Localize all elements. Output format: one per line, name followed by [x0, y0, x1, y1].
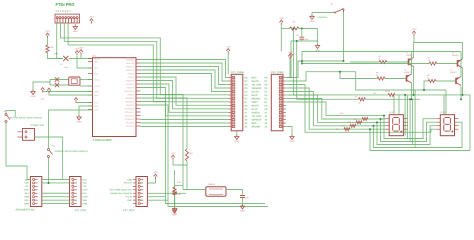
- ground S1: [310, 14, 314, 19]
- wire X3-X4 pin1: [42, 179, 70, 181]
- svg-text:VCC: VCC: [94, 67, 99, 70]
- svg-text:GND: GND: [234, 140, 239, 143]
- wire row2 b: [366, 98, 421, 100]
- wire sense drop 1: [293, 29, 295, 95]
- resistor R8 1k: [379, 60, 387, 63]
- svg-text:BLU: BLU: [83, 192, 88, 195]
- svg-text:VCC: VCC: [79, 47, 84, 50]
- svg-text:PC1/ADC1: PC1/ADC1: [125, 111, 134, 114]
- ground resonator: [31, 90, 35, 95]
- svg-text:R4: R4: [355, 96, 357, 99]
- wire loop0: [370, 129, 470, 150]
- resistor R3: [388, 93, 395, 96]
- wire seg net f5: [286, 102, 385, 116]
- wire bus C2: [141, 84, 229, 112]
- svg-text:BLUE: BLUE: [252, 94, 258, 97]
- junction: [462, 94, 464, 96]
- wire bottom bus 1: [166, 120, 266, 204]
- svg-text:C8: C8: [296, 34, 298, 37]
- wire R16 gnd: [174, 195, 176, 208]
- wire gnd stub JP1: [236, 131, 238, 135]
- resistor R4: [359, 98, 366, 101]
- wire base feed T3/T4: [286, 72, 355, 81]
- wire vcc to R2: [173, 160, 187, 165]
- wire drop d: [412, 99, 414, 144]
- junction: [380, 118, 382, 120]
- wire T3 emitter stub: [411, 52, 413, 75]
- svg-text:AREF: AREF: [94, 90, 100, 93]
- svg-text:XTAL1: XTAL1: [94, 78, 100, 81]
- wire f0 into display2: [431, 129, 436, 132]
- wire IC VCC pin: [76, 102, 93, 104]
- svg-text:10k: 10k: [190, 152, 193, 155]
- svg-text:XTAL2: XTAL2: [94, 85, 100, 88]
- svg-text:BLK: BLK: [83, 178, 88, 181]
- wire bus A0: [141, 60, 229, 78]
- VCC supply AVCC: [47, 88, 51, 93]
- wire S3 top to IC: [49, 110, 93, 149]
- svg-text:GRN: GRN: [24, 196, 29, 199]
- svg-text:BROWN: BROWN: [252, 97, 261, 100]
- VCC supply RC: [280, 20, 284, 25]
- svg-text:A2: A2: [358, 102, 360, 105]
- wire T3 collector: [411, 83, 413, 99]
- connector X6: [23, 129, 35, 141]
- VCC supply near reset: [79, 50, 83, 55]
- wire loop3: [381, 119, 437, 142]
- wire bus C0: [141, 77, 229, 105]
- svg-text:VCC: VCC: [90, 16, 95, 19]
- junction: [411, 98, 413, 100]
- wire cap C8 bottom: [301, 40, 303, 41]
- svg-text:100n: 100n: [64, 66, 68, 69]
- svg-text:YELLOW: YELLOW: [252, 115, 262, 118]
- svg-text:GND: GND: [172, 214, 177, 217]
- wire T1 emitter: [413, 43, 415, 58]
- wire S3 to X4 row: [48, 158, 50, 183]
- VCC supply X5: [154, 174, 158, 179]
- junction rail drop: [301, 60, 303, 62]
- svg-text:GREY: GREY: [252, 101, 259, 104]
- wire S1 left: [312, 12, 334, 14]
- VCC supply above JP1: [226, 49, 230, 54]
- wire R8 to T1 base: [387, 61, 409, 63]
- wire to VCC sym: [290, 41, 292, 53]
- ground below R16: [172, 208, 176, 213]
- capacitor C4: [55, 83, 59, 87]
- svg-text:PB0/ICP: PB0/ICP: [127, 86, 135, 89]
- svg-text:RED: RED: [252, 76, 257, 79]
- IC1 left pin stubs: [88, 59, 93, 110]
- wire drop e: [414, 90, 416, 148]
- wire T4 base drop: [424, 81, 428, 90]
- resistor R10 330: [362, 117, 368, 120]
- svg-text:RESET: RESET: [94, 57, 101, 60]
- net name labels between JP1 and JP2: [245, 76, 269, 128]
- wire bus D0: [141, 119, 229, 121]
- wire drop x470: [469, 95, 471, 151]
- svg-text:PB2/SS: PB2/SS: [127, 93, 134, 96]
- wire bottom bus 2: [168, 123, 268, 207]
- wire vcc stub: [80, 55, 82, 59]
- svg-text:Spindle New Signal IN: Spindle New Signal IN: [110, 192, 132, 195]
- resistor R10 1k: [377, 77, 385, 80]
- capacitor C3: [55, 77, 59, 81]
- svg-text:RED: RED: [83, 199, 88, 202]
- wire crystal right: [226, 190, 243, 195]
- svg-text:AN OUT: AN OUT: [124, 182, 133, 185]
- connector X5 EXT_MOV: [136, 177, 147, 207]
- junction sense 1: [293, 28, 295, 30]
- svg-text:BRN: BRN: [24, 202, 29, 205]
- svg-text:PD4/T0: PD4/T0: [128, 72, 134, 75]
- wire resonator left a: [50, 79, 69, 81]
- svg-text:330: 330: [348, 121, 351, 124]
- wire X3-X4 pin2: [42, 182, 70, 184]
- svg-text:PB6: PB6: [94, 60, 98, 63]
- wire display1 common b: [398, 95, 400, 115]
- wire drop c: [409, 99, 411, 141]
- junction sense 2: [296, 40, 298, 42]
- wire vcc JP2: [286, 59, 290, 78]
- wire FTDI TXD net: [61, 23, 229, 95]
- svg-text:BLUE: BLUE: [252, 108, 258, 111]
- svg-text:WHITE: WHITE: [252, 80, 260, 83]
- capacitor C1 22p: [172, 192, 177, 194]
- wire X5 pin7: [147, 199, 168, 201]
- svg-text:PD1/TXD: PD1/TXD: [126, 62, 135, 65]
- svg-text:VCC: VCC: [412, 28, 417, 31]
- ground below JP1: [235, 135, 239, 140]
- svg-text:16MHz: 16MHz: [208, 183, 215, 186]
- svg-text:BRN: BRN: [83, 202, 88, 205]
- VCC supply JP2: [289, 53, 293, 58]
- junction: [383, 115, 385, 117]
- svg-text:EXT_MOV: EXT_MOV: [123, 209, 135, 212]
- wire sense drop 2: [296, 41, 298, 99]
- wire display2 common a: [443, 95, 445, 115]
- svg-text:VCC: VCC: [171, 152, 176, 155]
- junction: [404, 94, 406, 96]
- wire X3-X4 pin7: [42, 199, 70, 201]
- svg-text:PB4/MISO: PB4/MISO: [125, 100, 134, 103]
- resistor R11 1k: [428, 79, 436, 82]
- wire cap2 gnd: [242, 198, 244, 204]
- VCC supply near FTDI: [90, 19, 94, 24]
- ground below C2: [240, 204, 244, 209]
- junction: [460, 98, 462, 100]
- wire RC a: [281, 28, 289, 30]
- wire RESET net: [48, 53, 64, 59]
- wire vcc to JP2: [286, 58, 291, 78]
- svg-text:330: 330: [354, 118, 357, 121]
- wire T2 base a: [302, 63, 429, 65]
- svg-text:GND: GND: [310, 20, 315, 23]
- wire row2 a: [297, 98, 359, 100]
- svg-text:2N2907: 2N2907: [404, 71, 411, 74]
- svg-text:BROWN: BROWN: [252, 125, 261, 128]
- svg-text:ARDUMOTO-NG: ARDUMOTO-NG: [16, 209, 35, 212]
- resistor R2 10k: [185, 149, 188, 161]
- wire rail2 left drop: [301, 52, 303, 64]
- wire R2 bottom: [186, 161, 188, 190]
- svg-text:GND: GND: [290, 140, 295, 143]
- wire loop2: [377, 122, 436, 144]
- junction T3 feed: [339, 71, 341, 73]
- op-amp U1 : microcontroller IC1 ATMEGA328P body: [93, 58, 137, 137]
- svg-text:RED: RED: [24, 199, 29, 202]
- VCC supply IC pin: [74, 98, 78, 103]
- wire T1 collector: [413, 67, 415, 95]
- svg-text:PC4/SDA: PC4/SDA: [126, 121, 135, 124]
- svg-text:3 3 T R 2 V 1: 3 3 T R 2 V 1: [56, 10, 72, 13]
- wire R11 to T4 base: [436, 80, 456, 82]
- svg-text:PC2/ADC2: PC2/ADC2: [125, 114, 134, 117]
- svg-text:ORANGE: ORANGE: [252, 87, 262, 90]
- svg-text:DTR: DTR: [54, 53, 59, 56]
- VCC supply near R2: [171, 155, 175, 160]
- wire S1 gnd stub: [311, 13, 313, 15]
- svg-text:VCC: VCC: [75, 48, 80, 51]
- wire bus A3: [141, 70, 229, 88]
- wire rail2: [302, 51, 461, 53]
- junction: [373, 125, 375, 127]
- wire IC GND pin: [79, 106, 93, 115]
- wire display1 common a: [393, 95, 395, 115]
- svg-text:PC0/ADC0: PC0/ADC0: [125, 107, 134, 110]
- svg-text:PD7/AIN1: PD7/AIN1: [126, 83, 134, 86]
- svg-text:R3 1k: R3 1k: [385, 90, 390, 93]
- junction T4 base: [423, 89, 425, 91]
- svg-text:VCC: VCC: [226, 46, 231, 49]
- VCC supply RESET pullup: [46, 33, 50, 38]
- wire T2 emitter: [462, 43, 464, 60]
- svg-text:Wire PWM Signal OUT: Wire PWM Signal OUT: [110, 189, 133, 192]
- wire X5 pin5: [147, 192, 186, 194]
- junction: [409, 98, 411, 100]
- wire seg net f3: [286, 95, 385, 122]
- wire bus A2: [141, 67, 229, 85]
- connector X4 EXT_CON: [70, 177, 81, 207]
- junction S3 row: [48, 182, 50, 184]
- transistor T3 PNP 2N2907: [407, 74, 412, 83]
- svg-text:EXT_CON: EXT_CON: [75, 209, 87, 212]
- wire resonator left b: [50, 84, 69, 86]
- connector X1 FTDI header: [55, 14, 79, 23]
- svg-text:FTDI PRG: FTDI PRG: [56, 2, 75, 7]
- switch S1 loadcell: [334, 8, 345, 13]
- VCC supply displays: [412, 31, 416, 36]
- svg-text:VCC: VCC: [154, 171, 159, 174]
- ground below C1: [173, 207, 177, 212]
- svg-text:ATMEGA328P: ATMEGA328P: [93, 138, 112, 142]
- wire vcc to R1: [47, 38, 49, 45]
- IC1 pin name texts: [94, 57, 135, 128]
- wire bus C1: [141, 81, 229, 109]
- svg-text:IC1: IC1: [93, 55, 97, 58]
- wire XTAL2 to R2: [141, 98, 188, 149]
- wire X6 to X4 row: [35, 137, 63, 180]
- svg-text:330: 330: [336, 128, 339, 131]
- wire S2 to X3: [6, 123, 30, 180]
- svg-text:PC6: PC6: [94, 72, 98, 75]
- svg-text:ORG: ORG: [24, 189, 29, 192]
- svg-text:PD6/AIN0: PD6/AIN0: [126, 79, 134, 82]
- display LED1 7-segment: [389, 115, 403, 136]
- wire R9 to T2 base: [437, 63, 458, 65]
- wire vcc X5: [147, 179, 155, 183]
- resistor R12 330: [350, 124, 356, 127]
- wire S2 top hook: [6, 111, 15, 118]
- ground below JP2: [290, 135, 294, 140]
- wire X3-X4 pin5: [42, 192, 70, 194]
- switch S3 spindle reed: [48, 149, 53, 158]
- resistor R11 330: [356, 121, 362, 124]
- connector JP1 (EXT_CON8): [231, 74, 243, 131]
- wire S1 to net: [343, 12, 345, 61]
- wire X3-X4 pin8: [42, 203, 70, 205]
- svg-text:GND: GND: [31, 95, 36, 98]
- svg-text:2N2907: 2N2907: [452, 54, 459, 57]
- svg-text:GND: GND: [240, 210, 245, 213]
- wire caps to gnd: [33, 82, 50, 90]
- svg-text:LED1: LED1: [389, 111, 395, 114]
- crystal Q2 resonator: [69, 77, 80, 85]
- junction switch net: [343, 60, 345, 62]
- wire XTAL1 to crystal: [141, 95, 184, 186]
- wire bus A1: [141, 63, 229, 81]
- wire T1 base a: [350, 61, 379, 63]
- svg-text:2N2907: 2N2907: [450, 71, 457, 74]
- wire X3-X4 pin6: [42, 196, 70, 198]
- svg-text:R14: R14: [340, 112, 343, 115]
- wire cap1 gnd: [174, 195, 176, 207]
- svg-text:BLU: BLU: [25, 192, 30, 195]
- svg-text:GREEN: GREEN: [252, 111, 261, 114]
- capacitor C6 (DTR reset): [63, 56, 68, 61]
- svg-text:GND: GND: [127, 178, 132, 181]
- transistor T4 PNP 2N2907: [456, 77, 461, 86]
- svg-text:GND: GND: [94, 108, 99, 111]
- resistor R16: [173, 187, 176, 195]
- wire vcc drop x281: [280, 25, 282, 52]
- svg-text:1k: 1k: [376, 74, 378, 77]
- svg-text:EXT_CON9: EXT_CON9: [271, 71, 284, 74]
- connector JP2 (EXT_CON9): [271, 74, 283, 131]
- wire net x165 upper: [141, 102, 166, 120]
- wire bus A4: [141, 74, 229, 92]
- wire caps joint: [49, 80, 51, 86]
- svg-text:PC5/SCL: PC5/SCL: [126, 125, 134, 128]
- wire seg net f0: [286, 85, 431, 133]
- svg-text:SPINDLE SPEED REED SWITCH: SPINDLE SPEED REED SWITCH: [55, 150, 89, 153]
- VCC supply AREF: [41, 88, 45, 93]
- svg-text:1k: 1k: [427, 77, 429, 80]
- svg-text:10k: 10k: [292, 21, 295, 24]
- connector X3 ARDUMOTO: [30, 177, 41, 207]
- wire FTDI CTS net: [68, 23, 228, 102]
- junction RC: [301, 28, 303, 30]
- junction: [369, 128, 371, 130]
- wire vcc stub rail1: [413, 36, 415, 43]
- svg-text:PD3/INT1: PD3/INT1: [126, 69, 134, 72]
- wire AVCC net: [49, 92, 93, 95]
- VCC supply IC: [75, 51, 79, 56]
- wire seg net f1: [286, 88, 385, 129]
- wire bus D1: [141, 122, 229, 124]
- wire cap C8 top: [301, 29, 303, 37]
- wire seg net f4: [286, 99, 385, 120]
- wire seg net f2: [286, 92, 385, 126]
- pin labels X3 left: [24, 178, 88, 205]
- svg-text:VCC: VCC: [279, 17, 284, 20]
- svg-text:1k: 1k: [428, 59, 430, 62]
- junction: [376, 121, 378, 123]
- svg-text:PC3/ADC3: PC3/ADC3: [125, 118, 134, 121]
- ground GND1: [73, 25, 77, 30]
- wire RC to gnd: [317, 29, 319, 44]
- wire RC c: [291, 40, 318, 42]
- resistor R5 10k: [290, 27, 300, 30]
- svg-text:ITU IN: ITU IN: [126, 196, 133, 199]
- ground IC pin: [77, 115, 81, 120]
- wire XTAL1 net: [80, 79, 93, 81]
- wire FTDI DTR net: [57, 23, 63, 59]
- svg-text:PD2/INT0: PD2/INT0: [126, 65, 134, 68]
- wire base net T4: [356, 72, 446, 90]
- resistor R13 330: [344, 128, 350, 131]
- junction T2 base: [301, 63, 303, 65]
- wire T2 collector: [462, 68, 464, 95]
- wire loop4: [384, 116, 436, 139]
- switch S2 motor reed: [5, 114, 10, 123]
- svg-text:GRN: GRN: [83, 196, 88, 199]
- wire row1 a: [294, 94, 389, 96]
- svg-text:GND: GND: [73, 30, 78, 33]
- svg-text:YELLOW: YELLOW: [252, 83, 262, 86]
- svg-text:RED: RED: [252, 122, 257, 125]
- svg-text:PD0/RXD: PD0/RXD: [126, 58, 135, 61]
- svg-text:PB1/OC1A: PB1/OC1A: [125, 90, 135, 93]
- crystal Q1 16MHz: [206, 187, 226, 197]
- svg-text:VCC: VCC: [46, 30, 51, 33]
- svg-text:GND: GND: [127, 199, 132, 202]
- wire T4 emitter stub: [460, 52, 462, 77]
- wire AREF net: [43, 91, 93, 93]
- resistor R9 1k: [429, 62, 437, 65]
- wire drop a: [404, 95, 406, 136]
- wire R10 to T3 base: [385, 78, 407, 80]
- wire gnd stub JP2: [286, 127, 292, 135]
- wire FTDI RXD net: [64, 23, 228, 99]
- VCC supply above JP2: [288, 54, 292, 59]
- svg-text:1k: 1k: [378, 58, 380, 61]
- svg-text:PD5/T1: PD5/T1: [128, 76, 134, 79]
- transistor T2 PNP 2N2907: [458, 59, 463, 68]
- wire switch net to JP2: [286, 61, 343, 78]
- svg-text:VCC: VCC: [41, 98, 46, 101]
- pin labels X5 left: [110, 178, 133, 202]
- svg-text:PB5/SCK: PB5/SCK: [126, 104, 135, 107]
- svg-text:ORG: ORG: [83, 189, 88, 192]
- transistor T1 PNP 2N2907: [409, 58, 414, 67]
- display LED2 7-segment: [440, 115, 454, 136]
- wire XTAL2 net: [80, 85, 93, 87]
- svg-text:VDD: VDD: [24, 182, 29, 185]
- wire rail1: [414, 42, 463, 44]
- svg-text:CONNECTOR: CONNECTOR: [30, 124, 44, 127]
- wire row1 b: [395, 94, 470, 96]
